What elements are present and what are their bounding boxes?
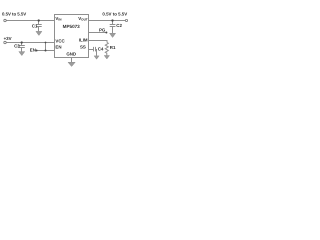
svg-text:PG: PG <box>99 27 106 32</box>
svg-text:0.5V to 5.5V: 0.5V to 5.5V <box>2 12 26 17</box>
svg-text:C1: C1 <box>32 23 38 28</box>
svg-text:ILIM: ILIM <box>79 38 88 43</box>
svg-text:0.5V to 5.5V: 0.5V to 5.5V <box>102 12 127 17</box>
svg-text:GND: GND <box>66 51 76 56</box>
svg-text:R1: R1 <box>110 45 116 50</box>
svg-text:EN: EN <box>55 45 61 50</box>
svg-text:VOUT: VOUT <box>78 16 88 22</box>
svg-text:MP5073: MP5073 <box>63 24 81 29</box>
svg-text:VCC: VCC <box>55 38 65 43</box>
svg-text:C2: C2 <box>116 23 122 28</box>
svg-text:SS: SS <box>80 45 86 50</box>
svg-text:C3: C3 <box>14 44 20 49</box>
svg-text:EN: EN <box>30 47 36 52</box>
svg-text:C4: C4 <box>98 47 104 52</box>
svg-text:VIN: VIN <box>55 16 62 22</box>
svg-text:+3V: +3V <box>4 36 12 41</box>
